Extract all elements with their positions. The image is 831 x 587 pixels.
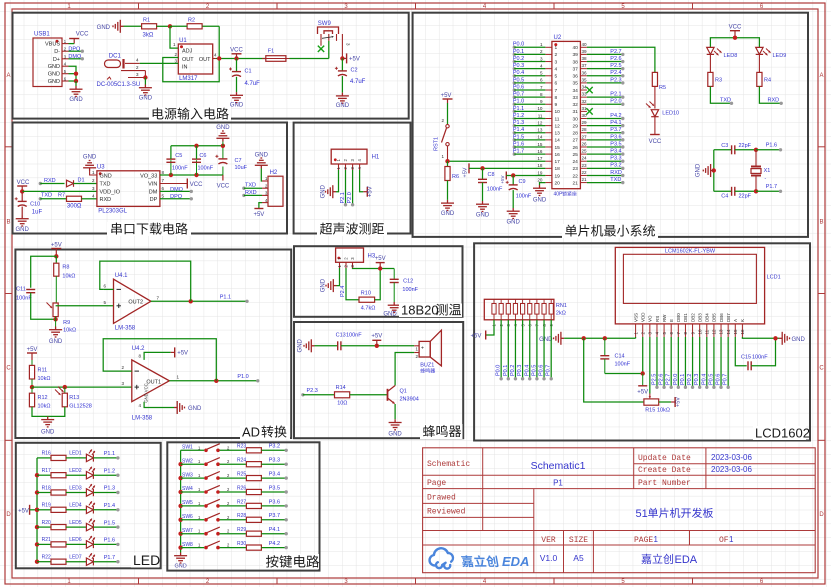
svg-text:P1.1: P1.1 — [513, 106, 524, 112]
svg-text:P2.5: P2.5 — [651, 374, 657, 385]
svg-text:7: 7 — [555, 88, 558, 94]
svg-text:P1.3: P1.3 — [104, 486, 115, 492]
svg-text:AD: AD — [242, 425, 260, 440]
svg-text:R9: R9 — [63, 320, 70, 326]
svg-text:LCM1602K-FL-YBW: LCM1602K-FL-YBW — [665, 249, 716, 255]
capacitor C1 — [236, 59, 238, 72]
svg-text:R1: R1 — [143, 18, 150, 24]
ground R9 — [55, 317, 57, 327]
svg-text:GND: GND — [97, 25, 111, 31]
svg-text:VIN: VIN — [148, 182, 157, 188]
section title serial download — [107, 222, 191, 236]
svg-text:TXD: TXD — [100, 182, 111, 188]
junction C3 X1 — [754, 148, 758, 152]
ground R6 — [447, 181, 449, 200]
svg-text:P1.4: P1.4 — [104, 503, 115, 509]
wire C15 to gnd rail — [751, 338, 775, 366]
power flag VCC output — [234, 56, 238, 60]
section box ultrasonic — [294, 123, 411, 234]
svg-text:OUT: OUT — [199, 57, 211, 63]
diode LED2 — [66, 474, 86, 476]
wire U4.1 feedback loop — [100, 261, 191, 301]
svg-text:+5V: +5V — [637, 390, 648, 396]
svg-text:VER: VER — [541, 536, 556, 545]
svg-text:32: 32 — [572, 102, 578, 108]
section box buzzer — [294, 322, 463, 438]
capacitor C2 — [341, 58, 343, 71]
svg-text:P3.7: P3.7 — [610, 127, 621, 133]
LED rail — [36, 458, 38, 562]
svg-text:100nF: 100nF — [198, 166, 214, 172]
resistor R11 — [31, 360, 33, 365]
svg-text:+5V: +5V — [371, 334, 382, 340]
svg-text:100nF: 100nF — [16, 296, 32, 302]
svg-text:P1.1: P1.1 — [220, 295, 231, 301]
svg-text:GND: GND — [792, 337, 806, 343]
section title buzzer — [420, 424, 463, 439]
svg-text:A5: A5 — [573, 553, 584, 563]
section box LCD1602 — [474, 243, 810, 440]
no-connect cross pin34 — [586, 87, 592, 93]
svg-text:37: 37 — [572, 66, 578, 72]
svg-text:OF: OF — [719, 536, 729, 545]
wire pin15 A to C15 — [735, 337, 746, 366]
svg-text:13: 13 — [537, 128, 543, 133]
svg-text:TXD: TXD — [610, 177, 621, 183]
svg-text:22pF: 22pF — [739, 194, 752, 200]
svg-text:P3.5: P3.5 — [269, 485, 280, 491]
svg-text:SW7: SW7 — [182, 528, 193, 534]
svg-text:R13: R13 — [69, 395, 79, 401]
logo jlceda — [430, 548, 453, 568]
svg-text:C12: C12 — [403, 279, 413, 285]
resistor R12 — [31, 387, 33, 393]
wire U4.2 output — [169, 380, 257, 382]
svg-text:R14: R14 — [336, 385, 346, 391]
svg-text:+5V: +5V — [253, 212, 264, 218]
svg-text:C3: C3 — [721, 143, 728, 149]
svg-text:P0.3: P0.3 — [513, 63, 524, 69]
svg-text:RW: RW — [662, 314, 667, 322]
wire C6 top — [196, 146, 198, 159]
resistor R30 — [246, 545, 261, 550]
switch RST1 — [447, 103, 449, 124]
svg-text:R21: R21 — [42, 537, 51, 543]
svg-text:VSS: VSS — [633, 313, 638, 322]
svg-text:VO: VO — [648, 315, 653, 322]
svg-text:6: 6 — [555, 81, 558, 87]
svg-text:VDD_IO: VDD_IO — [100, 190, 121, 196]
svg-text:R23: R23 — [237, 444, 246, 450]
svg-text:Page: Page — [427, 479, 446, 488]
svg-text:P1.6: P1.6 — [513, 141, 524, 147]
svg-text:P0.2: P0.2 — [687, 374, 693, 385]
section title AD convert — [240, 426, 290, 440]
svg-text:29: 29 — [572, 123, 578, 129]
net label P3.4 — [261, 477, 286, 479]
svg-text:28: 28 — [581, 127, 587, 132]
svg-text:P0.2: P0.2 — [513, 56, 524, 62]
svg-text:33: 33 — [572, 95, 578, 101]
svg-text:P0.7: P0.7 — [546, 365, 552, 376]
svg-text:OUT1: OUT1 — [146, 379, 161, 385]
wire R14 to Q1 base — [350, 394, 388, 396]
net label P1.3 — [93, 492, 118, 494]
LCD data port wires — [656, 337, 658, 387]
svg-text:19: 19 — [537, 170, 543, 175]
svg-text:C2: C2 — [351, 68, 358, 74]
svg-text:GND: GND — [49, 339, 63, 345]
svg-text:P1.1: P1.1 — [104, 451, 115, 457]
svg-text:40P: 40P — [554, 192, 564, 198]
svg-text:8: 8 — [540, 92, 543, 97]
svg-text:RXD: RXD — [100, 197, 112, 203]
svg-text:+: + — [421, 346, 424, 352]
svg-text:8: 8 — [555, 95, 558, 101]
svg-text:R11: R11 — [38, 368, 48, 374]
svg-text:P2.7: P2.7 — [610, 49, 621, 55]
svg-text:15: 15 — [733, 329, 738, 335]
ground Q1 emitter — [394, 404, 396, 419]
svg-text:3: 3 — [540, 56, 543, 61]
svg-text:C5: C5 — [175, 153, 182, 159]
net label P3.6 — [261, 505, 286, 507]
junction C9 — [511, 173, 515, 177]
svg-text:3kΩ: 3kΩ — [143, 33, 154, 39]
resistor R28 — [246, 517, 261, 522]
svg-text:PAGE: PAGE — [634, 536, 653, 545]
svg-text:X1: X1 — [764, 168, 771, 174]
svg-text:P2.4: P2.4 — [340, 286, 346, 297]
net label P4.1 — [261, 533, 286, 535]
svg-text:R16: R16 — [42, 451, 51, 457]
svg-text:C14: C14 — [615, 354, 625, 360]
wire H3 pin3 to C12 — [353, 267, 395, 270]
svg-text:R4: R4 — [764, 78, 771, 84]
svg-text:C13: C13 — [336, 333, 346, 339]
svg-text:DB7: DB7 — [726, 313, 731, 322]
svg-text:TXD: TXD — [720, 98, 731, 104]
svg-text:RS: RS — [655, 316, 660, 322]
svg-text:LM-358: LM-358 — [115, 326, 136, 332]
svg-text:36: 36 — [572, 74, 578, 80]
svg-text:1: 1 — [729, 535, 734, 544]
net label P3.7 — [261, 519, 286, 521]
svg-text:10kΩ: 10kΩ — [38, 376, 51, 382]
buzzer BUZ1 — [419, 341, 430, 357]
net label P1.0 — [256, 379, 259, 382]
svg-text:P1.5: P1.5 — [513, 134, 524, 140]
junction U4.1 feedback — [189, 299, 193, 303]
svg-text:P0.0: P0.0 — [673, 374, 679, 385]
svg-text:E: E — [669, 319, 674, 322]
capacitor C5 — [170, 160, 172, 175]
svg-text:38: 38 — [572, 59, 578, 65]
svg-text:SW3: SW3 — [182, 472, 193, 478]
svg-text:P0.1: P0.1 — [513, 49, 524, 55]
resistor R10 — [359, 297, 375, 302]
svg-text:LED8: LED8 — [724, 53, 738, 59]
svg-text:R12: R12 — [38, 395, 48, 401]
wire pin16 K to gnd — [742, 337, 779, 338]
svg-text:10: 10 — [537, 106, 543, 111]
svg-text:GND: GND — [533, 198, 547, 204]
svg-text:SW2: SW2 — [182, 458, 193, 464]
ground C2 — [341, 76, 343, 93]
svg-text:P0.5: P0.5 — [708, 374, 714, 385]
svg-text:2023-03-06: 2023-03-06 — [711, 465, 752, 474]
net label P3.5 — [261, 491, 286, 493]
junction VCC C10 — [20, 189, 24, 193]
svg-text:P1.3: P1.3 — [513, 120, 524, 126]
svg-text:P0.1: P0.1 — [503, 365, 509, 376]
svg-text:C: C — [6, 366, 11, 372]
svg-text:R22: R22 — [42, 555, 51, 561]
diode D1 — [67, 180, 74, 187]
power flag VCC LED10 — [654, 117, 656, 135]
svg-text:DC-005C1.3-SU: DC-005C1.3-SU — [97, 82, 141, 88]
svg-text:C6: C6 — [199, 153, 206, 159]
svg-text:DB3: DB3 — [697, 313, 702, 322]
svg-text:2023-03-06: 2023-03-06 — [711, 453, 752, 462]
svg-text:U2: U2 — [554, 35, 562, 41]
diode LED10 — [651, 110, 658, 117]
svg-text:P0.7: P0.7 — [513, 92, 524, 98]
svg-text:U3: U3 — [97, 165, 105, 171]
svg-text:P2.4: P2.4 — [610, 70, 621, 76]
wire H1 pin1 to gnd — [336, 170, 339, 192]
svg-text:12: 12 — [712, 329, 717, 335]
svg-text:R24: R24 — [237, 458, 246, 464]
svg-text:P0.3: P0.3 — [517, 365, 523, 376]
junction VCC LEDs — [733, 36, 737, 40]
svg-text:R27: R27 — [237, 499, 246, 505]
junction K gnd — [773, 336, 777, 340]
svg-text:C4: C4 — [721, 194, 728, 200]
svg-text:17: 17 — [555, 159, 561, 165]
wire VO pin3 to wiper — [649, 337, 651, 394]
svg-text:35: 35 — [581, 77, 587, 82]
svg-text:P3.6: P3.6 — [269, 499, 280, 505]
svg-text:P2.1: P2.1 — [610, 92, 621, 98]
svg-text:P1.7: P1.7 — [513, 149, 524, 155]
svg-text:P0.0: P0.0 — [496, 365, 502, 376]
svg-text:+5V: +5V — [51, 243, 62, 249]
wire H1 pin4 to +5V — [360, 170, 364, 192]
svg-text:VCC: VCC — [217, 184, 230, 190]
svg-text:C8: C8 — [488, 172, 495, 178]
net label P2.0 H1 — [352, 170, 354, 205]
svg-text:P1.6: P1.6 — [104, 538, 115, 544]
svg-text:26: 26 — [572, 145, 578, 151]
junction LED rail row 6 — [35, 542, 39, 546]
svg-text:16: 16 — [555, 152, 561, 158]
power flag +5V LCD — [642, 374, 644, 386]
svg-text:R26: R26 — [237, 485, 246, 491]
svg-text:11: 11 — [705, 329, 710, 334]
svg-text:29: 29 — [581, 120, 587, 125]
section title ultrasonic — [317, 222, 387, 236]
svg-text:23: 23 — [572, 166, 578, 172]
svg-text:DB5: DB5 — [712, 313, 717, 322]
ground C1 — [236, 77, 238, 92]
svg-text:P1.5: P1.5 — [104, 520, 115, 526]
svg-text:OUT2: OUT2 — [128, 299, 143, 305]
diode LED6 — [66, 543, 86, 545]
svg-text:21: 21 — [572, 180, 578, 186]
svg-text:P0.0: P0.0 — [513, 42, 524, 48]
svg-text:GND: GND — [48, 64, 60, 70]
svg-text:P1: P1 — [553, 479, 563, 488]
resistor R7 — [67, 196, 82, 201]
svg-text:GND: GND — [48, 72, 60, 78]
svg-text:LM-358: LM-358 — [132, 416, 153, 422]
wire DC1 pin4 to U1 IN — [125, 62, 140, 64]
svg-text:P3.2: P3.2 — [269, 444, 280, 450]
svg-text:P3.7: P3.7 — [269, 513, 280, 519]
svg-text:P4.2: P4.2 — [269, 541, 280, 547]
right port labels U2 — [587, 53, 623, 55]
capacitor C13 — [338, 341, 341, 350]
svg-text:V1.0: V1.0 — [540, 553, 558, 563]
svg-text:GND: GND — [441, 211, 455, 217]
power flag +5V R15 — [671, 401, 675, 403]
svg-text:EDA: EDA — [502, 554, 529, 569]
wire USB1 pin1 to VCC — [69, 43, 75, 45]
net label P1.7 — [756, 190, 781, 192]
wire VCC rail LEDs — [710, 38, 759, 48]
svg-text:P2.6: P2.6 — [659, 374, 665, 385]
section box LED — [16, 443, 161, 569]
net label P1.6 — [93, 543, 118, 545]
svg-text:GND: GND — [174, 564, 186, 570]
capacitor C14 — [604, 338, 606, 355]
svg-text:GND: GND — [298, 338, 304, 352]
svg-text:39: 39 — [572, 52, 578, 58]
junction C4 X1 — [754, 189, 758, 193]
svg-text:C1: C1 — [245, 69, 252, 75]
svg-text:Reviewed: Reviewed — [427, 508, 466, 517]
power flag +5V H1 — [363, 191, 367, 193]
svg-text:21: 21 — [581, 177, 587, 182]
svg-text:35: 35 — [572, 81, 578, 87]
svg-text:10uF: 10uF — [235, 165, 248, 171]
resistor R2 — [187, 24, 202, 29]
ground C8 — [482, 183, 484, 202]
svg-text:P2.0: P2.0 — [610, 99, 621, 105]
junction keys rail row 3 — [178, 476, 182, 480]
svg-text:2: 2 — [555, 52, 558, 58]
svg-text:5: 5 — [555, 74, 558, 80]
svg-text:27: 27 — [572, 138, 578, 144]
svg-text:R19: R19 — [42, 503, 51, 509]
svg-text:300Ω: 300Ω — [67, 204, 82, 210]
svg-text:A: A — [819, 73, 823, 79]
crystal X1 — [755, 150, 757, 166]
wire decoupling top rail — [171, 145, 223, 147]
no-connect cross SW9 pin1 — [320, 41, 322, 46]
svg-text:16: 16 — [740, 329, 745, 335]
wire SW1 to R23 — [220, 449, 247, 451]
svg-text:4.7uF: 4.7uF — [350, 79, 366, 85]
svg-text:VBUS: VBUS — [45, 42, 60, 48]
svg-text:100nF: 100nF — [487, 187, 503, 193]
svg-text:P1.6: P1.6 — [766, 142, 777, 148]
svg-text:DB4: DB4 — [705, 313, 710, 322]
svg-text:Update Date: Update Date — [638, 454, 691, 463]
svg-text:1: 1 — [555, 45, 558, 51]
section title LCD1602 — [753, 426, 806, 440]
junction R9 gnd — [53, 317, 57, 321]
title block grid lines — [634, 463, 816, 465]
svg-text:9: 9 — [540, 99, 543, 104]
svg-text:39: 39 — [581, 49, 587, 54]
ground decoupling rail — [222, 142, 224, 146]
left port labels U2 — [513, 46, 516, 49]
wire USB1 gnd pins — [69, 66, 77, 81]
svg-text:+5V: +5V — [500, 175, 505, 183]
wire VCC to U3 VDD_IO — [22, 190, 97, 192]
svg-text:LCD1: LCD1 — [767, 275, 781, 281]
svg-text:10: 10 — [697, 329, 702, 335]
svg-text:+5V: +5V — [368, 186, 374, 197]
svg-text:100nF: 100nF — [516, 194, 532, 200]
junction output feedback — [217, 56, 221, 60]
power flag pin19 mark — [505, 171, 507, 179]
svg-text:P0.4: P0.4 — [701, 374, 707, 385]
svg-text:U4.1: U4.1 — [115, 273, 128, 279]
wire U3 VO_33 decoupling rail — [160, 174, 223, 176]
svg-text:P3.2: P3.2 — [610, 163, 621, 169]
wire C13 to BUZ1 — [341, 345, 414, 347]
svg-text:10kΩ: 10kΩ — [657, 408, 670, 414]
svg-text:GND: GND — [255, 153, 269, 159]
svg-text:4.7kΩ: 4.7kΩ — [361, 306, 376, 312]
section title power input — [149, 108, 231, 121]
wire R12 R13 bottoms — [32, 407, 65, 417]
capacitor C4 — [714, 190, 732, 192]
svg-text:P3.6: P3.6 — [610, 134, 621, 140]
section box keys — [167, 442, 319, 570]
svg-text:36: 36 — [581, 70, 587, 75]
diode LED5 — [66, 526, 86, 528]
wire junction to R2 — [170, 25, 187, 27]
junction keys rail row 5 — [178, 504, 182, 508]
resistor R24 — [246, 462, 261, 467]
wire R2 to feedback — [202, 25, 219, 27]
svg-text:P0.5: P0.5 — [513, 77, 524, 83]
svg-text:GND: GND — [83, 155, 97, 161]
svg-text:4: 4 — [555, 66, 558, 72]
junction VDD +5V — [641, 371, 645, 375]
svg-text:18: 18 — [537, 163, 543, 168]
svg-text:11: 11 — [538, 113, 543, 118]
net label P2.1 H1 — [345, 170, 347, 205]
svg-text:GND: GND — [16, 227, 30, 233]
svg-text:2N3904: 2N3904 — [400, 397, 419, 403]
svg-text:10Ω: 10Ω — [337, 401, 347, 407]
wire SW8 to R30 — [220, 547, 247, 549]
svg-text:P4.2: P4.2 — [610, 113, 621, 119]
svg-text:5: 5 — [540, 71, 543, 76]
svg-text:30: 30 — [572, 116, 578, 122]
svg-text:DB1: DB1 — [683, 313, 688, 322]
junction LED rail row 7 — [35, 560, 39, 564]
wire R9 wiper to op-amp pin5 — [56, 305, 114, 307]
wire VDD pin2 down — [642, 337, 644, 374]
svg-text:51: 51 — [636, 508, 648, 520]
svg-text:D+: D+ — [53, 57, 60, 63]
